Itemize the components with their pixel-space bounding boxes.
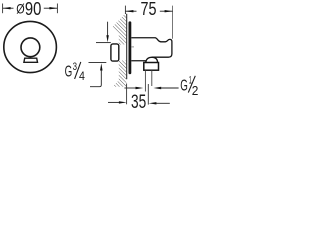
dim Ø90 arrow right [49,7,57,9]
dim 75 arrow left [125,10,133,12]
step at flange [131,46,134,48]
dim 75 line right [160,10,173,12]
dim 75 tick left [124,6,126,14]
svg-text:2: 2 [192,83,199,98]
stub extension line bottom [89,62,107,64]
outlet dome [146,57,158,62]
arm bottom edge [131,60,146,62]
svg-text:90: 90 [25,0,41,19]
arm top edge [131,37,155,39]
G3/4 down arrow tail [107,22,109,36]
wall face line [126,14,128,79]
outlet pipe wall right [151,70,153,86]
G3/4 down arrow [106,35,109,42]
front view flange circle [4,21,57,72]
pipe channel through wall (white gap) [119,45,127,61]
dim 75 arrow right [165,10,173,12]
svg-text:G: G [180,78,188,95]
label G1/2 right arrow [153,87,161,89]
dim 75 line left [125,10,136,12]
dim Ø90 arrow left [3,7,11,9]
dim 35 left extension [126,84,128,105]
label G1/2 leader [161,87,179,89]
outlet nut block [144,63,159,71]
stub extension line top [96,42,111,44]
flange plate (side view) [129,21,132,74]
outlet pipe wall left [144,70,146,91]
label G1/2 left arrow line [124,87,136,89]
svg-text:35: 35 [131,92,146,112]
G3/4 stub (union behind wall) [111,44,119,61]
holder saddle and cup outline [152,38,172,57]
dim Ø90 extension tick left [2,4,4,14]
svg-text:Ø: Ø [16,2,25,17]
G3/4 up arrow [100,63,103,70]
dim 35 arrow right [149,102,157,104]
svg-text:3: 3 [73,61,77,73]
outlet axis extension line [147,84,149,105]
dim Ø90 line right [44,7,58,9]
wall hatch lower part [112,60,126,86]
label G1/2 left arrow [136,87,144,89]
dim 35 arrow left [119,101,127,103]
dim 35 line left [108,101,120,103]
svg-text:75: 75 [141,0,157,19]
dim Ø90 extension tick right [56,4,58,14]
holder knob circle [21,38,40,57]
dim 75 extension right [172,6,174,39]
dim Ø90 line left [3,7,14,9]
dim 35 line right [156,102,170,104]
svg-text:4: 4 [79,71,85,83]
wall hatch [112,13,127,45]
label G3/4 leader [90,70,101,87]
holder bracket [24,58,38,62]
svg-text:G: G [65,63,73,80]
